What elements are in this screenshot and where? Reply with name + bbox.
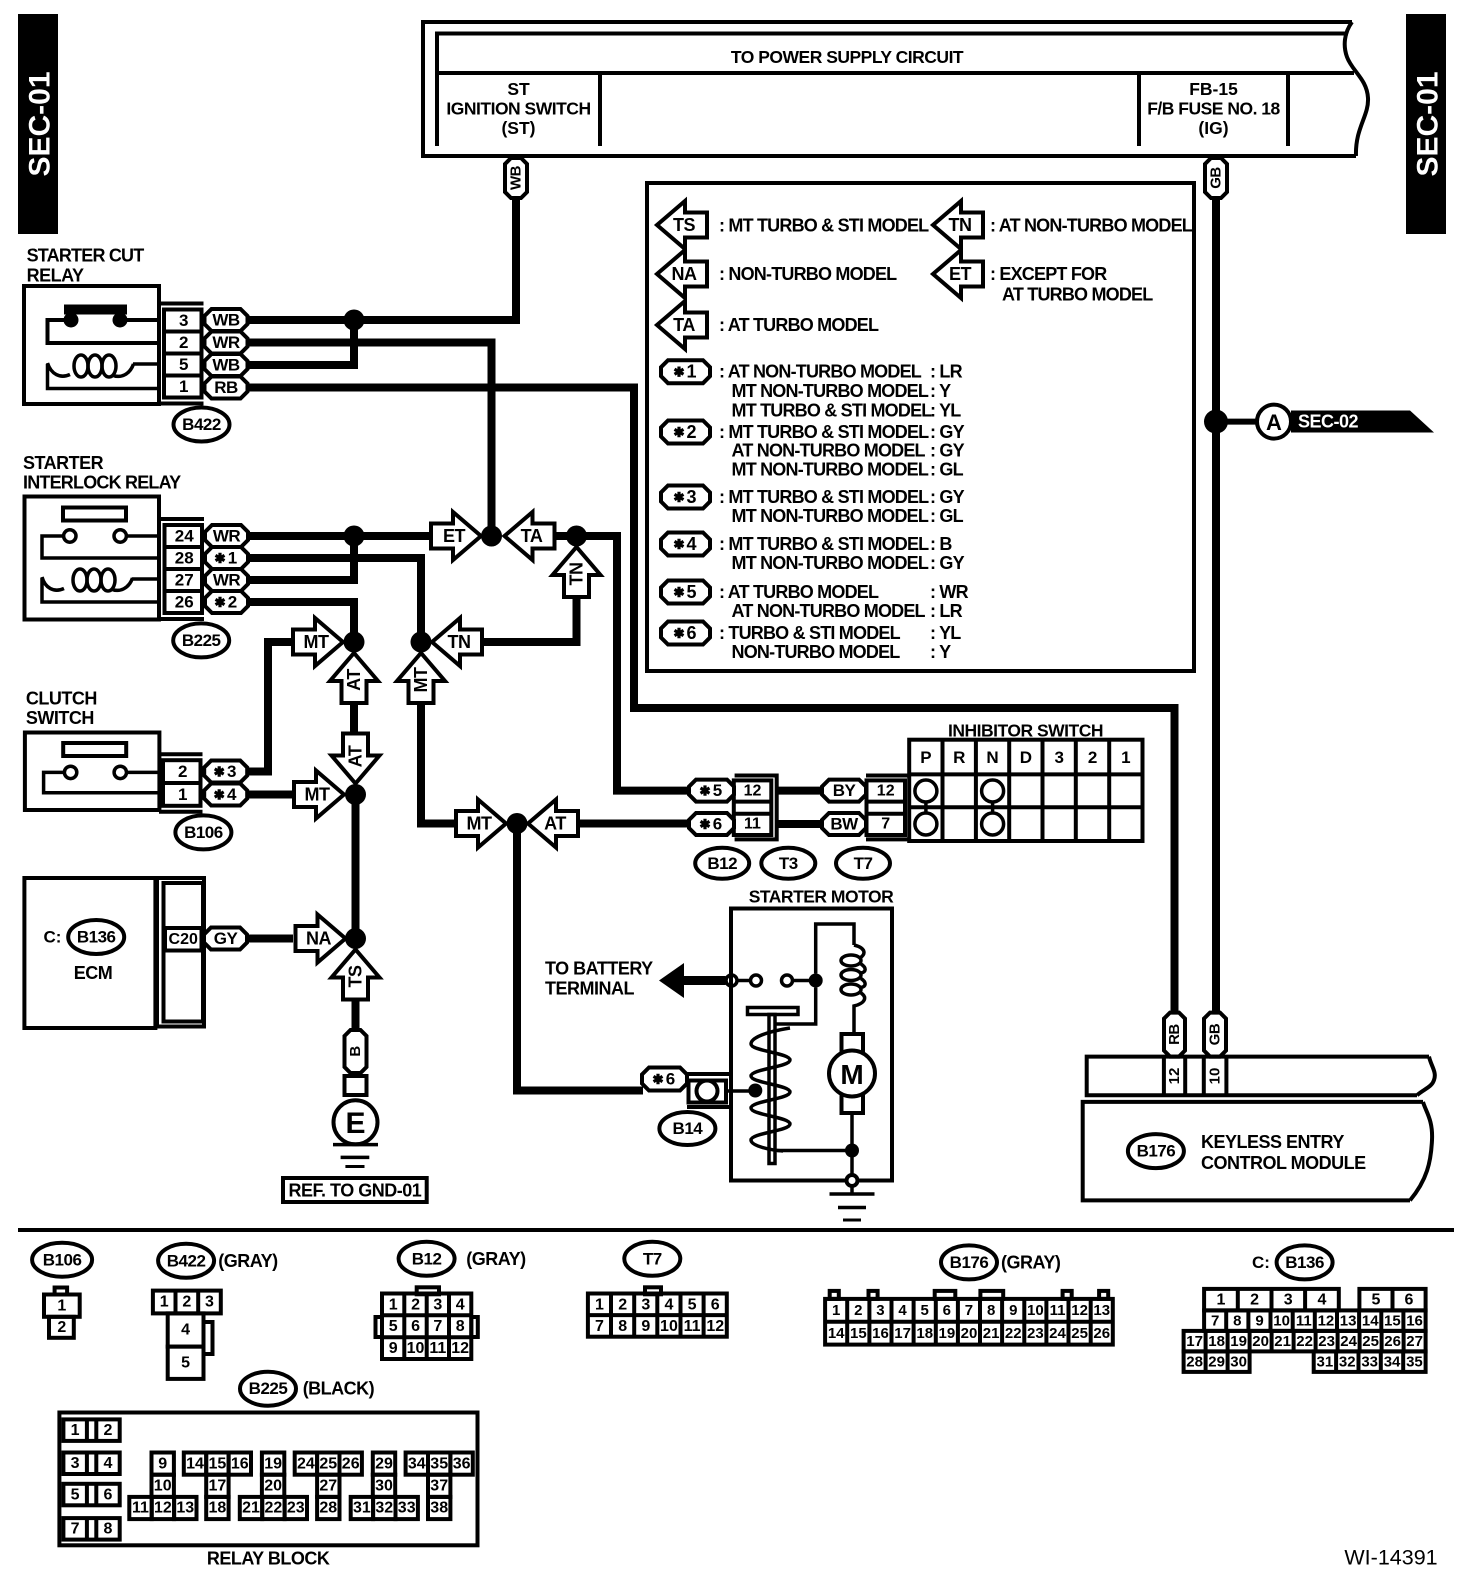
relay coil (interlock) (42, 569, 159, 602)
svg-text:21: 21 (242, 1500, 260, 1517)
ground (E) (333, 1145, 378, 1167)
node B14 wire junction (507, 813, 528, 834)
svg-text:6: 6 (711, 1296, 720, 1313)
wire solenoid to plunger contact (775, 988, 816, 1025)
connector ref B14 (659, 1112, 715, 1145)
svg-text:8: 8 (1233, 1312, 1241, 1329)
svg-text:TO BATTERY: TO BATTERY (545, 958, 653, 978)
svg-text:2: 2 (618, 1296, 627, 1313)
svg-text:15: 15 (850, 1325, 867, 1342)
svg-text:6: 6 (104, 1486, 113, 1503)
connector ref B225 (173, 623, 229, 657)
svg-text:: GY: : GY (930, 422, 965, 442)
svg-text:B225: B225 (249, 1379, 288, 1398)
svg-text:: MT TURBO & STI MODEL: : MT TURBO & STI MODEL (719, 534, 929, 554)
svg-text:2: 2 (1250, 1291, 1259, 1308)
svg-text:12: 12 (877, 782, 895, 799)
condition arrow AT down at clutch node (332, 734, 380, 784)
svg-text:1: 1 (178, 785, 187, 804)
node plunger contact (748, 1084, 762, 1098)
svg-text:2: 2 (178, 762, 187, 781)
svg-text:12: 12 (1166, 1068, 1183, 1085)
svg-text:MT TURBO & STI MODEL: MT TURBO & STI MODEL (732, 400, 933, 420)
label C: B136 ECM (44, 928, 62, 947)
separator line (18, 1228, 1454, 1232)
fuse cell label (1147, 79, 1280, 138)
svg-text:16: 16 (231, 1455, 249, 1472)
svg-text:7: 7 (595, 1318, 604, 1335)
svg-text:13: 13 (1340, 1312, 1357, 1329)
svg-text:B136: B136 (77, 928, 116, 947)
node WR junction (344, 526, 365, 547)
svg-text:B12: B12 (412, 1249, 442, 1268)
plunger spring (751, 1028, 790, 1151)
condition arrow TA (505, 512, 555, 560)
wire label RB pin1 (205, 377, 248, 399)
note REF. TO GND-01 (283, 1178, 427, 1202)
svg-text:5: 5 (688, 1296, 697, 1313)
svg-text:23: 23 (287, 1500, 305, 1517)
svg-text:7: 7 (433, 1318, 442, 1335)
wire B422 pin5 WB riser (247, 320, 354, 365)
wire label *2 pin26 (205, 591, 248, 613)
svg-text:T3: T3 (779, 854, 798, 873)
wire label GB at fuse (1205, 158, 1227, 198)
svg-text:12: 12 (1071, 1302, 1088, 1319)
svg-text:28: 28 (175, 549, 194, 568)
svg-text:GY: GY (214, 929, 239, 948)
connector T3 pin block (734, 776, 777, 840)
svg-text:9: 9 (641, 1318, 650, 1335)
svg-text:B106: B106 (184, 823, 223, 842)
ignition switch cell label (446, 79, 590, 138)
svg-text:: GL: : GL (930, 460, 964, 480)
legend arrow NA (657, 250, 707, 298)
svg-text:8: 8 (987, 1302, 995, 1319)
svg-text:24: 24 (175, 527, 194, 546)
wire label BY (822, 780, 866, 802)
svg-text:MT: MT (305, 785, 330, 805)
svg-text:6: 6 (943, 1302, 951, 1319)
wire clutch *3 up to MT arrow (246, 642, 293, 772)
label CLUTCH SWITCH (26, 689, 97, 729)
svg-text:3: 3 (433, 1296, 442, 1313)
B225 pins 24 28 27 26 (161, 519, 205, 619)
svg-text:10: 10 (407, 1340, 425, 1357)
svg-text:ET: ET (443, 526, 466, 546)
svg-text:25: 25 (1362, 1333, 1379, 1350)
svg-text:(ST): (ST) (501, 118, 535, 138)
svg-text:4: 4 (227, 785, 237, 804)
wire label WR pin2 (205, 332, 248, 354)
svg-text:4: 4 (456, 1296, 465, 1313)
svg-text:35: 35 (430, 1455, 448, 1472)
svg-text:FB-15: FB-15 (1189, 79, 1238, 99)
svg-text:16: 16 (872, 1325, 889, 1342)
svg-text:4: 4 (1317, 1291, 1326, 1308)
svg-text:5: 5 (389, 1318, 398, 1335)
svg-text:8: 8 (104, 1521, 113, 1538)
svg-text:31: 31 (1317, 1353, 1334, 1370)
legend box (647, 183, 1194, 671)
wire label *6 at B14 (642, 1068, 687, 1091)
wire TA node to *5 inhibitor (555, 536, 689, 791)
svg-text:TA: TA (521, 526, 543, 546)
wire clutch *4 to MT arrow (246, 791, 294, 799)
svg-text:38: 38 (430, 1500, 448, 1517)
starter ground terminal (847, 1175, 858, 1186)
plunger T-bar (748, 1008, 799, 1015)
svg-text:AT: AT (344, 669, 364, 691)
wire label RB at keyless module (1164, 1013, 1185, 1057)
condition arrow NA at ECM node (296, 915, 346, 963)
wire MT arrow tail down to MT arrow at B14 node (421, 703, 456, 824)
svg-text:TN: TN (567, 563, 587, 586)
svg-text:13: 13 (1093, 1302, 1110, 1319)
svg-text:5: 5 (1371, 1291, 1380, 1308)
connector T7 pin block (866, 776, 909, 840)
svg-text:C:: C: (44, 928, 62, 947)
svg-text:B422: B422 (182, 415, 221, 434)
svg-text:: YL: : YL (930, 400, 961, 420)
svg-text:2: 2 (686, 422, 696, 442)
svg-text:7: 7 (965, 1302, 973, 1319)
svg-text:MT: MT (411, 667, 431, 692)
B422 pins 3 2 5 1 (160, 304, 204, 404)
svg-text:32: 32 (1339, 1353, 1356, 1370)
svg-text:12: 12 (706, 1318, 724, 1335)
svg-text:30: 30 (375, 1478, 393, 1495)
svg-text:MT: MT (467, 814, 492, 834)
svg-text:: GL: : GL (930, 506, 964, 526)
svg-text:(BLACK): (BLACK) (303, 1379, 375, 1399)
svg-text:(GRAY): (GRAY) (1001, 1252, 1061, 1272)
svg-text:1: 1 (160, 1294, 169, 1311)
svg-text:P: P (920, 748, 931, 767)
svg-text:WI-14391: WI-14391 (1344, 1546, 1437, 1570)
svg-text:WB: WB (508, 165, 525, 190)
svg-text:B422: B422 (167, 1251, 206, 1270)
pull-in coil (starter) (841, 945, 865, 1034)
svg-text:AT NON-TURBO MODEL: AT NON-TURBO MODEL (732, 441, 926, 461)
svg-text:18: 18 (916, 1325, 933, 1342)
wire TS arrow tail to B label (352, 999, 360, 1032)
svg-text:(GRAY): (GRAY) (466, 1249, 526, 1269)
svg-text:B14: B14 (673, 1119, 704, 1138)
ECM box (24, 878, 155, 1028)
legend text 4 (719, 534, 965, 573)
svg-text:ECM: ECM (74, 963, 113, 983)
svg-text:TS: TS (673, 215, 695, 235)
connector ref B12 (695, 848, 749, 879)
node WB junction (344, 310, 365, 331)
svg-text:: LR: : LR (930, 601, 963, 621)
svg-text:26: 26 (1093, 1325, 1110, 1342)
svg-text:15: 15 (209, 1455, 227, 1472)
svg-text:B106: B106 (43, 1250, 82, 1269)
svg-text:6: 6 (1405, 1291, 1414, 1308)
left page tab SEC-01 (18, 14, 58, 234)
node TN/MT junction B2 (411, 632, 432, 653)
connector view T7 label (624, 1242, 680, 1276)
svg-text:11: 11 (429, 1340, 446, 1357)
svg-text:: LR: : LR (930, 362, 963, 382)
svg-text:1: 1 (1216, 1291, 1225, 1308)
svg-text:GB: GB (1207, 1023, 1224, 1045)
legend text 2 (719, 422, 965, 480)
svg-text:: GY: : GY (930, 487, 965, 507)
wire label WB pin3 (205, 309, 248, 331)
wire AT arrow tail to *6 inhibitor (578, 820, 690, 828)
wire GB from fuse to keyless module pin10 (1212, 198, 1220, 1014)
svg-text:: AT NON-TURBO MODEL: : AT NON-TURBO MODEL (719, 362, 922, 382)
svg-text:BW: BW (830, 815, 859, 834)
svg-text:8: 8 (618, 1318, 627, 1335)
svg-text:9: 9 (158, 1455, 167, 1472)
label KEYLESS ENTRY CONTROL MODULE (1201, 1132, 1366, 1173)
svg-text:6: 6 (686, 623, 696, 643)
wire label B (ground lead) (345, 1030, 367, 1073)
svg-text:2: 2 (1088, 748, 1097, 767)
svg-text:B176: B176 (950, 1253, 989, 1272)
svg-text:22: 22 (1296, 1333, 1313, 1350)
wire label GB at keyless module (1204, 1013, 1226, 1057)
svg-text:SEC-01: SEC-01 (24, 71, 57, 176)
legend text 5 (719, 582, 969, 621)
svg-text:26: 26 (342, 1455, 360, 1472)
svg-text:2: 2 (854, 1302, 862, 1319)
connector B14 block (687, 1074, 749, 1107)
svg-text:23: 23 (1318, 1333, 1335, 1350)
ground point E (334, 1100, 378, 1144)
svg-text:23: 23 (1027, 1325, 1044, 1342)
svg-text:18: 18 (209, 1500, 227, 1517)
svg-text:13: 13 (176, 1500, 194, 1517)
wire M to ground node (850, 1113, 854, 1175)
svg-text:26: 26 (175, 593, 194, 612)
connector view B422 (153, 1291, 221, 1379)
inhibitor switch grid (909, 740, 1142, 841)
svg-text:2: 2 (179, 333, 188, 352)
svg-text:28: 28 (319, 1500, 337, 1517)
ECM connector block (157, 878, 204, 1027)
starter motor box (731, 909, 892, 1181)
wire label *6 (689, 813, 734, 835)
connector view relay block (59, 1413, 477, 1546)
legend text 6 (719, 623, 961, 662)
svg-text:: TURBO & STI MODEL: : TURBO & STI MODEL (719, 623, 901, 643)
svg-text:20: 20 (961, 1325, 978, 1342)
right page tab SEC-01 (1406, 14, 1446, 234)
svg-text:C:: C: (1252, 1253, 1270, 1272)
starter motor M (829, 1034, 875, 1113)
svg-text:WB: WB (212, 356, 240, 375)
svg-text:34: 34 (408, 1455, 426, 1472)
svg-text:WR: WR (213, 527, 241, 546)
svg-text:14: 14 (828, 1325, 845, 1342)
svg-text:4: 4 (104, 1455, 113, 1472)
svg-text:10: 10 (1273, 1312, 1290, 1329)
wire stub to flag A (1216, 419, 1257, 425)
wire inhibitor pin11 to BW (777, 820, 823, 828)
svg-text:RB: RB (214, 378, 238, 397)
starter cut relay B422 box (24, 286, 159, 404)
svg-text:10: 10 (1207, 1068, 1224, 1085)
svg-text:WB: WB (212, 311, 240, 330)
svg-text:1: 1 (57, 1298, 66, 1315)
connector view B176 label (941, 1245, 997, 1279)
svg-text:4: 4 (686, 534, 696, 554)
relay coil (starter cut) (48, 355, 160, 389)
solenoid contact terminals (726, 974, 823, 988)
keyless entry control module box (torn right edge) (1083, 1102, 1432, 1201)
svg-text:24: 24 (1049, 1325, 1066, 1342)
legend text 1 (719, 362, 963, 421)
svg-text:E: E (345, 1107, 365, 1140)
node MT/AT junction A2 (344, 632, 365, 653)
connector ref T3 (761, 848, 815, 879)
svg-text:7: 7 (881, 816, 890, 833)
svg-text:6: 6 (713, 815, 722, 834)
svg-text:RELAY: RELAY (27, 265, 84, 285)
svg-text:AT TURBO MODEL: AT TURBO MODEL (1002, 285, 1153, 305)
svg-text:C20: C20 (169, 931, 198, 948)
connector ref T7 (836, 848, 890, 879)
svg-text:3: 3 (227, 762, 236, 781)
wire B422 pin3 WB (247, 316, 354, 324)
svg-text:17: 17 (894, 1325, 911, 1342)
svg-text:7: 7 (1211, 1312, 1219, 1329)
legend arrow TS (657, 201, 707, 249)
svg-text:33: 33 (1361, 1353, 1378, 1370)
legend arrow TA (657, 301, 707, 349)
wire B422 pin2 WR down to ET/TA node (247, 343, 492, 537)
svg-text:ST: ST (507, 79, 530, 99)
node A junction on GB wire (1204, 410, 1228, 434)
condition arrow ET (431, 512, 481, 560)
svg-text:D: D (1020, 748, 1032, 767)
inhibitor contacts P column (915, 780, 937, 835)
svg-text:17: 17 (209, 1478, 227, 1495)
svg-text:24: 24 (1340, 1333, 1357, 1350)
wire inhibitor pin12 to BY (777, 787, 823, 795)
svg-text:17: 17 (1186, 1333, 1203, 1350)
svg-text:: AT NON-TURBO MODEL: : AT NON-TURBO MODEL (990, 216, 1193, 236)
legend text 3 (719, 487, 965, 526)
svg-text:TN: TN (448, 632, 471, 652)
wire B225 pin24 WR to ET arrow (247, 532, 431, 540)
svg-text:12: 12 (154, 1500, 172, 1517)
svg-text:24: 24 (297, 1455, 315, 1472)
svg-text:5: 5 (179, 355, 188, 374)
svg-text:B176: B176 (1137, 1142, 1176, 1161)
svg-text:9: 9 (389, 1340, 398, 1357)
svg-text:4: 4 (898, 1302, 907, 1319)
svg-text:10: 10 (660, 1318, 678, 1335)
svg-text:3: 3 (641, 1296, 650, 1313)
svg-text:11: 11 (1296, 1312, 1312, 1329)
connector view B12 label (399, 1242, 455, 1276)
svg-text:MT: MT (304, 632, 329, 652)
svg-text:21: 21 (1274, 1333, 1291, 1350)
svg-text:N: N (986, 748, 998, 767)
svg-text:: AT TURBO MODEL: : AT TURBO MODEL (719, 582, 879, 602)
plunger rod (769, 1015, 775, 1164)
svg-text:1: 1 (832, 1302, 840, 1319)
svg-text:28: 28 (1186, 1353, 1203, 1370)
svg-text:6: 6 (411, 1318, 420, 1335)
svg-text:9: 9 (1009, 1302, 1017, 1319)
svg-text:1: 1 (389, 1296, 398, 1313)
svg-text:3: 3 (1284, 1291, 1293, 1308)
svg-text:5: 5 (921, 1302, 929, 1319)
ground (starter motor) (830, 1186, 875, 1220)
svg-text:B225: B225 (182, 631, 221, 650)
wire label BW (822, 813, 866, 835)
svg-text:9: 9 (1255, 1312, 1263, 1329)
svg-text:11: 11 (684, 1318, 701, 1335)
battery terminal arrow (659, 963, 726, 998)
svg-text:(IG): (IG) (1198, 118, 1228, 138)
svg-text:27: 27 (319, 1478, 337, 1495)
label TO BATTERY TERMINAL (545, 958, 653, 998)
svg-text:INTERLOCK RELAY: INTERLOCK RELAY (23, 473, 181, 493)
svg-text:AT: AT (544, 814, 566, 834)
label STARTER INTERLOCK RELAY (23, 453, 181, 493)
wire WB from ignition switch to node WB (354, 198, 516, 320)
connector view B136 label (1277, 1245, 1333, 1279)
flag A SEC-02 (1257, 405, 1434, 439)
wire label *1 pin28 (205, 547, 248, 569)
power supply circuit box (torn right edge) (423, 22, 1368, 156)
svg-text:32: 32 (375, 1500, 393, 1517)
wire B225 pin27 WR riser (247, 536, 354, 580)
svg-text:34: 34 (1384, 1353, 1401, 1370)
svg-text:: NON-TURBO MODEL: : NON-TURBO MODEL (719, 264, 897, 284)
svg-text:1: 1 (595, 1296, 604, 1313)
svg-text:11: 11 (744, 816, 761, 833)
wire ECM GY to NA arrow (247, 935, 294, 943)
svg-text:25: 25 (1071, 1325, 1088, 1342)
wire B225 pin28 *1 down to node (247, 558, 421, 642)
svg-text:CLUTCH: CLUTCH (26, 689, 97, 709)
svg-text:: Y: : Y (930, 381, 951, 401)
condition arrow TS at ECM node (332, 950, 380, 1000)
svg-text:3: 3 (71, 1455, 80, 1472)
svg-text:: Y: : Y (930, 642, 951, 662)
legend symbol *3 (661, 486, 710, 509)
connector ref B136 (in ECM) (68, 920, 124, 954)
keyless module pin strip (torn right edge) (1087, 1057, 1435, 1096)
svg-text:B: B (347, 1046, 364, 1057)
svg-text:3: 3 (1054, 748, 1063, 767)
wire between AT arrows (350, 703, 358, 735)
svg-text:30: 30 (1230, 1353, 1247, 1370)
wire clutch node down to ECM node (352, 795, 360, 939)
svg-text:TN: TN (949, 215, 972, 235)
svg-text:5: 5 (181, 1354, 190, 1371)
svg-text:2: 2 (57, 1319, 66, 1336)
svg-text:TO POWER SUPPLY CIRCUIT: TO POWER SUPPLY CIRCUIT (731, 47, 964, 67)
wire solenoid to pull-in coil (816, 924, 854, 974)
svg-text:: GY: : GY (930, 553, 965, 573)
svg-text:12: 12 (1318, 1312, 1335, 1329)
svg-text:29: 29 (375, 1455, 393, 1472)
svg-text:INHIBITOR SWITCH: INHIBITOR SWITCH (948, 720, 1103, 740)
svg-text:MT NON-TURBO MODEL: MT NON-TURBO MODEL (732, 506, 929, 526)
svg-text:NA: NA (672, 264, 697, 284)
clutch switch box (25, 733, 160, 811)
